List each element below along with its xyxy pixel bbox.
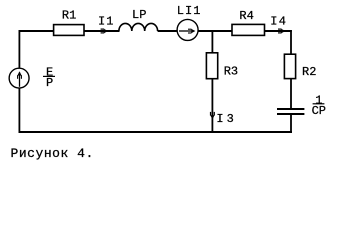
- svg-text:CP: CP: [312, 104, 326, 118]
- wire R1 to inductor: [84, 30, 120, 32]
- svg-text:I1: I1: [98, 15, 113, 29]
- svg-text:R4: R4: [239, 9, 253, 23]
- wire right side top: [290, 30, 292, 55]
- svg-text:R3: R3: [224, 64, 238, 78]
- wire left side upper: [18, 30, 20, 68]
- capacitor CP: [277, 109, 304, 114]
- resistor R4: [232, 24, 265, 35]
- current arrow I4: [278, 29, 286, 33]
- resistor R2: [284, 54, 295, 78]
- svg-text:LP: LP: [132, 8, 146, 22]
- wire R2 to capacitor: [290, 79, 292, 109]
- wire bottom: [19, 131, 292, 133]
- wire R3 to bottom with current arrow I3: [210, 79, 214, 133]
- svg-text:R2: R2: [302, 65, 316, 79]
- svg-text:I4: I4: [270, 15, 286, 29]
- wire top-left horizontal: [19, 30, 54, 32]
- resistor R1: [54, 25, 84, 36]
- label 1/CP: [312, 93, 326, 118]
- label E/P: [43, 65, 55, 90]
- wire capacitor to bottom-right corner: [290, 114, 292, 133]
- wire LI1 to R4: [198, 30, 232, 32]
- inductor LP: [119, 23, 158, 31]
- voltage source E: [9, 68, 29, 88]
- svg-text:LI1: LI1: [177, 4, 201, 18]
- svg-text:I3: I3: [216, 112, 233, 126]
- wire left side lower: [18, 88, 20, 133]
- wire inductor to source LI1: [158, 30, 177, 32]
- current arrow I1: [101, 29, 109, 33]
- current source LI1: [177, 19, 198, 40]
- resistor R3: [206, 53, 217, 79]
- svg-text:P: P: [46, 76, 53, 90]
- node junction top of R3 branch: [211, 31, 213, 53]
- wire R4 to top-right corner: [265, 30, 292, 32]
- svg-text:Рисунок 4.: Рисунок 4.: [11, 146, 94, 161]
- svg-text:R1: R1: [62, 9, 76, 23]
